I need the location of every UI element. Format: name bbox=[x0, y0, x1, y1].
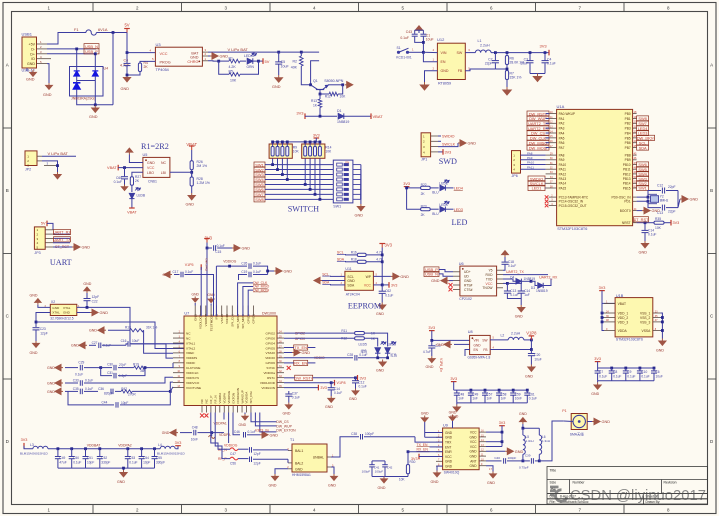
cap C12 0.1uF bbox=[355, 378, 357, 381]
svg-text:USB1: USB1 bbox=[22, 32, 33, 37]
svg-text:DW_MOSI: DW_MOSI bbox=[529, 145, 548, 150]
svg-text:PROG: PROG bbox=[160, 61, 171, 65]
svg-text:VCC: VCC bbox=[486, 282, 494, 286]
wire cap tops to gnd bbox=[415, 29, 424, 31]
svg-text:VDDinON: VDDinON bbox=[261, 386, 275, 390]
svg-text:U6: U6 bbox=[459, 262, 464, 266]
svg-text:PB1: PB1 bbox=[625, 117, 631, 121]
svg-text:GND: GND bbox=[378, 486, 386, 490]
svg-text:GPIO4: GPIO4 bbox=[266, 341, 276, 345]
mcu swd port labels bbox=[528, 176, 545, 181]
svg-text:SW1: SW1 bbox=[333, 204, 341, 208]
svg-text:LED: LED bbox=[452, 218, 468, 227]
connector JP1 SWD bbox=[421, 133, 431, 157]
gnd below C23 bbox=[33, 341, 40, 347]
svg-text:PA11: PA11 bbox=[559, 168, 567, 172]
svg-text:EN: EN bbox=[474, 348, 479, 352]
svg-text:PB14: PB14 bbox=[623, 182, 631, 186]
svg-text:0.1uF: 0.1uF bbox=[334, 391, 342, 395]
svg-text:V1P8: V1P8 bbox=[337, 381, 346, 385]
svg-text:RX_EN: RX_EN bbox=[294, 361, 307, 366]
svg-text:0.1uF: 0.1uF bbox=[627, 375, 635, 379]
svg-text:GPIO2: GPIO2 bbox=[266, 331, 276, 335]
svg-text:PB2: PB2 bbox=[625, 122, 631, 126]
svg-text:C15: C15 bbox=[215, 250, 221, 254]
svg-text:31K 1%: 31K 1% bbox=[146, 326, 157, 330]
svg-text:1N5819: 1N5819 bbox=[337, 120, 349, 124]
power 3V3 LED block bbox=[404, 186, 410, 188]
svg-text:R11: R11 bbox=[341, 329, 347, 333]
svg-text:40K: 40K bbox=[291, 66, 298, 70]
svg-text:GND: GND bbox=[30, 294, 38, 298]
gnd of USB shell bbox=[26, 68, 28, 71]
gnd plane up symbol bbox=[415, 26, 423, 33]
svg-text:C44: C44 bbox=[102, 400, 108, 404]
svg-text:GPIO5: GPIO5 bbox=[266, 346, 276, 350]
svg-text:VSS_1: VSS_1 bbox=[640, 311, 650, 315]
crystal Y2 bbox=[651, 196, 659, 203]
gnd arrow SMA bbox=[587, 421, 592, 423]
svg-text:PB4: PB4 bbox=[625, 131, 631, 135]
svg-text:R1: R1 bbox=[229, 56, 234, 60]
svg-text:10uF: 10uF bbox=[132, 339, 139, 343]
svg-text:NC: NC bbox=[186, 331, 191, 335]
svg-text:GND: GND bbox=[652, 209, 661, 213]
ports DW_CS DW_WUP DW_EXTON bbox=[251, 413, 276, 422]
svg-text:PA1: PA1 bbox=[559, 117, 565, 121]
svg-text:C48: C48 bbox=[192, 425, 198, 429]
svg-text:C16: C16 bbox=[121, 339, 127, 343]
svg-text:VDDIOG: VDDIOG bbox=[224, 443, 238, 447]
svg-text:SDA: SDA bbox=[322, 281, 330, 285]
resistor network RP1 10K bbox=[269, 144, 292, 158]
cap C20 10uF bbox=[530, 350, 532, 354]
svg-text:VBAT: VBAT bbox=[618, 302, 626, 306]
svg-text:GND: GND bbox=[519, 412, 527, 416]
svg-text:C55: C55 bbox=[156, 456, 162, 460]
svg-text:PB15: PB15 bbox=[623, 186, 631, 190]
gnd below C21 bbox=[428, 356, 435, 362]
label V1P8_En bbox=[465, 350, 470, 357]
svg-text:100pF: 100pF bbox=[365, 432, 374, 436]
svg-text:0.1uF: 0.1uF bbox=[85, 378, 93, 382]
mcu left port labels bbox=[527, 111, 549, 116]
svg-text:C31: C31 bbox=[107, 371, 113, 375]
svg-text:XTAL: XTAL bbox=[63, 306, 71, 310]
svg-text:2K: 2K bbox=[144, 65, 149, 69]
svg-text:GND: GND bbox=[89, 329, 97, 333]
svg-text:JP2: JP2 bbox=[25, 167, 31, 171]
svg-text:AT24C04: AT24C04 bbox=[346, 292, 360, 296]
gnd below leds bbox=[379, 360, 386, 367]
svg-text:3V3: 3V3 bbox=[428, 326, 435, 330]
svg-text:GND: GND bbox=[147, 161, 155, 165]
gnd below C62 bbox=[379, 303, 386, 310]
svg-text:47uF: 47uF bbox=[59, 460, 66, 464]
svg-text:C49: C49 bbox=[59, 456, 65, 460]
x mark SYNC bbox=[287, 366, 291, 370]
svg-text:2M 1%: 2M 1% bbox=[197, 164, 208, 168]
svg-text:3V3: 3V3 bbox=[296, 111, 304, 116]
gnd below dip switch bbox=[360, 199, 362, 204]
svg-text:VCC: VCC bbox=[160, 52, 168, 56]
svg-text:15K 1%: 15K 1% bbox=[510, 76, 522, 80]
wire U1B vdd bus bbox=[602, 313, 604, 331]
svg-text:XTAL1: XTAL1 bbox=[186, 341, 196, 345]
svg-text:TESTMODE: TESTMODE bbox=[209, 314, 213, 331]
gnd below C14 bbox=[518, 305, 525, 312]
svg-text:12pF: 12pF bbox=[253, 452, 260, 456]
svg-text:GND: GND bbox=[470, 435, 478, 439]
svg-text:Size: Size bbox=[550, 481, 557, 485]
svg-text:0.1uF: 0.1uF bbox=[359, 384, 367, 388]
svg-text:C29: C29 bbox=[78, 360, 84, 364]
svg-text:BAL1: BAL1 bbox=[295, 449, 303, 453]
svg-text:VDDLDOD: VDDLDOD bbox=[260, 381, 276, 385]
wire CHRG to R1 bbox=[208, 60, 219, 62]
diode D3 bbox=[531, 281, 537, 285]
svg-text:SWITCH: SWITCH bbox=[288, 205, 319, 214]
svg-text:UART: UART bbox=[50, 258, 72, 267]
gnd below C4 bbox=[123, 75, 130, 82]
svg-text:VDDIF: VDDIF bbox=[186, 361, 195, 365]
svg-text:UART_TX: UART_TX bbox=[53, 237, 71, 242]
svg-text:TP4054: TP4054 bbox=[156, 68, 169, 72]
svg-text:100pF: 100pF bbox=[375, 470, 384, 474]
svg-text:C43: C43 bbox=[406, 30, 412, 34]
svg-text:0.1uF: 0.1uF bbox=[510, 293, 518, 297]
svg-text:VCC: VCC bbox=[147, 166, 155, 170]
svg-text:GND: GND bbox=[47, 366, 55, 370]
svg-text:VCC: VCC bbox=[470, 445, 477, 449]
svg-text:GND: GND bbox=[242, 247, 251, 251]
power 3V3 decouple row1 bbox=[451, 381, 457, 383]
svg-text:GND: GND bbox=[100, 311, 109, 315]
x marks RTS CTS bbox=[449, 283, 453, 287]
svg-text:GND: GND bbox=[426, 365, 434, 369]
svg-text:A: A bbox=[6, 63, 9, 68]
gnd below C3 C4 bbox=[530, 73, 545, 75]
svg-text:JP3: JP3 bbox=[34, 251, 40, 255]
svg-text:LED3: LED3 bbox=[454, 208, 463, 212]
svg-text:ANT: ANT bbox=[470, 459, 476, 463]
svg-text:C35: C35 bbox=[73, 387, 79, 391]
svg-text:GND: GND bbox=[295, 467, 303, 471]
svg-text:GND: GND bbox=[52, 306, 60, 310]
gnd arrow BOOT0 bbox=[637, 210, 642, 212]
svg-text:PB11: PB11 bbox=[623, 168, 631, 172]
svg-text:5V: 5V bbox=[265, 59, 270, 64]
svg-text:U11: U11 bbox=[345, 267, 351, 271]
svg-text:D+: D+ bbox=[30, 52, 35, 56]
cap C37 bbox=[288, 391, 290, 394]
svg-text:VSSIO: VSSIO bbox=[266, 351, 276, 355]
svg-text:PA8: PA8 bbox=[527, 151, 533, 155]
svg-text:GND: GND bbox=[431, 480, 439, 484]
svg-text:GND: GND bbox=[63, 311, 71, 315]
cap C33 22pF bbox=[662, 205, 664, 211]
svg-text:C56: C56 bbox=[230, 461, 236, 465]
svg-text:22pF: 22pF bbox=[668, 210, 676, 214]
svg-text:VBAT: VBAT bbox=[186, 142, 197, 147]
svg-text:FB: FB bbox=[458, 69, 463, 73]
power 3V3 SWD bbox=[438, 151, 443, 153]
svg-text:R2: R2 bbox=[293, 60, 298, 64]
svg-text:PA9: PA9 bbox=[559, 158, 565, 162]
svg-text:GPIO0: GPIO0 bbox=[266, 336, 276, 340]
svg-text:SW8: SW8 bbox=[255, 197, 263, 202]
power V1P8 VDDLDOD bbox=[284, 382, 331, 384]
wire +5V to fuse bbox=[47, 33, 76, 45]
svg-text:10pF: 10pF bbox=[87, 460, 94, 464]
svg-text:LEDB: LEDB bbox=[137, 194, 146, 198]
svg-text:GND: GND bbox=[445, 465, 453, 469]
decouple caps row1 bbox=[454, 389, 528, 391]
svg-text:C40: C40 bbox=[494, 456, 500, 460]
svg-text:0.1uF: 0.1uF bbox=[217, 244, 225, 248]
wire D+ to USB_P bbox=[47, 53, 96, 55]
svg-text:VDDIOA: VDDIOA bbox=[245, 391, 249, 404]
svg-text:SPI_MOSI: SPI_MOSI bbox=[241, 314, 245, 329]
power 3V3 U1B bbox=[599, 290, 605, 292]
svg-text:C26: C26 bbox=[241, 262, 247, 266]
power 3V3 left bbox=[304, 113, 306, 119]
resnet column joins bbox=[272, 158, 274, 164]
svg-text:100pF: 100pF bbox=[508, 456, 517, 460]
svg-text:1.2M 1%: 1.2M 1% bbox=[197, 181, 210, 185]
net label USB_N bbox=[84, 44, 99, 49]
power 3V3 at RSTn bbox=[356, 377, 358, 379]
svg-text:GND: GND bbox=[639, 251, 648, 255]
gnd below row1 bbox=[456, 403, 458, 405]
svg-text:PA4: PA4 bbox=[559, 131, 565, 135]
svg-text:RX_EN: RX_EN bbox=[417, 448, 429, 452]
svg-text:JP1: JP1 bbox=[421, 158, 427, 162]
svg-text:UART2_RX: UART2_RX bbox=[539, 275, 558, 279]
svg-text:VBAT: VBAT bbox=[127, 211, 137, 215]
svg-text:GND: GND bbox=[464, 279, 472, 283]
svg-text:VDDPA: VDDPA bbox=[222, 392, 226, 403]
svg-text:3V3: 3V3 bbox=[320, 386, 327, 390]
svg-text:GND: GND bbox=[468, 142, 477, 146]
svg-text:C17: C17 bbox=[173, 270, 179, 274]
ESD diode array box bbox=[70, 67, 104, 97]
svg-text:27pF: 27pF bbox=[119, 363, 126, 367]
crystal Y2 8MHz circuit bbox=[637, 191, 661, 198]
svg-text:C28: C28 bbox=[347, 353, 353, 357]
wire BAT to U10 bbox=[279, 51, 319, 53]
wire 5V to U3 VCC bbox=[127, 33, 155, 53]
svg-text:VCC: VCC bbox=[470, 431, 477, 435]
svg-text:R30: R30 bbox=[410, 460, 416, 464]
svg-text:Title: Title bbox=[550, 469, 557, 473]
svg-text:VDDCLK: VDDCLK bbox=[186, 371, 199, 375]
wire crystal gnd bbox=[678, 191, 680, 208]
svg-text:Number: Number bbox=[573, 481, 586, 485]
svg-text:3V3: 3V3 bbox=[391, 283, 397, 287]
svg-text:SW4010Q: SW4010Q bbox=[444, 471, 460, 475]
svg-text:DW_WUP: DW_WUP bbox=[276, 424, 292, 428]
svg-text:C54: C54 bbox=[143, 456, 149, 460]
svg-text:0.1uF: 0.1uF bbox=[359, 353, 367, 357]
gnd below C36b bbox=[328, 396, 335, 402]
wire T1 gnd bbox=[275, 469, 288, 474]
svg-text:HHM1598A1: HHM1598A1 bbox=[292, 473, 311, 477]
svg-text:V3P3_0n: V3P3_0n bbox=[255, 429, 269, 433]
svg-text:PA11: PA11 bbox=[527, 165, 534, 169]
svg-text:3V3: 3V3 bbox=[385, 243, 393, 248]
wire X2 xtal out right bbox=[77, 307, 184, 343]
svg-text:VCC: VCC bbox=[470, 440, 477, 444]
svg-text:PB9: PB9 bbox=[625, 158, 631, 162]
svg-text:PA7: PA7 bbox=[559, 146, 565, 150]
svg-text:VDD_3: VDD_3 bbox=[618, 320, 629, 324]
svg-text:GND: GND bbox=[656, 348, 664, 352]
svg-text:2.2uH: 2.2uH bbox=[480, 43, 490, 47]
svg-text:1N5819: 1N5819 bbox=[524, 277, 536, 281]
svg-text:36K: 36K bbox=[140, 369, 147, 373]
svg-text:C47: C47 bbox=[230, 452, 236, 456]
svg-text:C36: C36 bbox=[98, 387, 104, 391]
svg-text:L2: L2 bbox=[501, 333, 505, 337]
svg-text:红色: 红色 bbox=[391, 353, 398, 358]
svg-text:B: B bbox=[6, 188, 9, 193]
svg-text:PA14: PA14 bbox=[559, 182, 567, 186]
wire VIN bbox=[423, 51, 437, 53]
net label UART_RX bbox=[53, 233, 70, 235]
port DW_RSTn bbox=[295, 375, 313, 380]
wire BAT rail bbox=[208, 51, 279, 53]
svg-text:BOOT0: BOOT0 bbox=[620, 209, 631, 213]
wire 5V rail bbox=[113, 32, 127, 34]
svg-text:0.1uF: 0.1uF bbox=[253, 270, 261, 274]
svg-text:LED4: LED4 bbox=[454, 187, 463, 191]
svg-text:LED1: LED1 bbox=[532, 186, 542, 191]
power 3V3 above U2 bbox=[204, 239, 210, 243]
power 3V3 left rail bbox=[23, 443, 25, 449]
svg-text:GND: GND bbox=[269, 484, 277, 488]
wire TRX from balun bbox=[415, 437, 443, 442]
wire EN down bbox=[311, 61, 320, 85]
power VBAT above R26 bbox=[189, 146, 195, 150]
svg-text:GND: GND bbox=[436, 343, 444, 347]
svg-text:T1: T1 bbox=[290, 438, 294, 442]
net label SWDIO bbox=[438, 135, 441, 137]
wire T1 unbal to C38 bbox=[331, 437, 359, 457]
cap row C31 bbox=[101, 368, 112, 376]
svg-text:0.1uF: 0.1uF bbox=[547, 62, 556, 66]
svg-text:V LiPo BAT: V LiPo BAT bbox=[228, 47, 249, 52]
gnd arrow VSSIO bbox=[284, 352, 292, 354]
svg-text:VSS_3: VSS_3 bbox=[640, 320, 650, 324]
svg-text:CN61: CN61 bbox=[148, 180, 157, 184]
svg-text:U12: U12 bbox=[437, 37, 445, 42]
svg-text:GND: GND bbox=[441, 69, 449, 73]
svg-text:GND: GND bbox=[82, 246, 91, 250]
svg-text:R12: R12 bbox=[341, 337, 347, 341]
svg-text:GND: GND bbox=[30, 351, 38, 355]
wire vcotune bbox=[170, 387, 173, 392]
svg-text:WAKEUP: WAKEUP bbox=[240, 390, 244, 403]
svg-text:R13: R13 bbox=[311, 99, 317, 103]
power 3V3 above resnets bbox=[314, 137, 320, 139]
svg-text:3V3: 3V3 bbox=[313, 134, 320, 138]
svg-text:VDDBAT: VDDBAT bbox=[87, 444, 101, 448]
svg-text:WP: WP bbox=[366, 275, 372, 279]
svg-text:0.1uF: 0.1uF bbox=[292, 395, 300, 399]
wire EN tie to VIN bbox=[423, 52, 437, 61]
svg-text:EN: EN bbox=[441, 60, 446, 64]
svg-text:RF_P: RF_P bbox=[218, 457, 227, 461]
svg-text:PA5: PA5 bbox=[559, 136, 565, 140]
svg-text:G6959-MPA-1.8: G6959-MPA-1.8 bbox=[468, 356, 491, 360]
svg-text:PB7: PB7 bbox=[625, 146, 631, 150]
svg-text:PB6: PB6 bbox=[625, 141, 631, 145]
svg-text:0.1uF: 0.1uF bbox=[73, 460, 81, 464]
wire JP3 gnd bbox=[53, 246, 72, 248]
wire USB GND down bbox=[47, 64, 49, 83]
svg-text:GND: GND bbox=[515, 450, 524, 454]
gnd arrow eeprom bbox=[322, 280, 345, 282]
svg-text:BLU: BLU bbox=[432, 212, 439, 216]
svg-text:NRST: NRST bbox=[622, 221, 631, 225]
caps C41 C42 below bbox=[371, 461, 373, 465]
svg-text:PA10: PA10 bbox=[527, 161, 534, 165]
svg-text:VDDMS: VDDMS bbox=[186, 356, 197, 360]
svg-text:JN803RA(2SG): JN803RA(2SG) bbox=[71, 97, 95, 101]
svg-text:C38: C38 bbox=[351, 432, 357, 436]
wire D- to USB_N bbox=[47, 48, 96, 50]
power VBAT into U5 bbox=[117, 165, 119, 171]
svg-text:GND: GND bbox=[470, 464, 478, 468]
svg-text:10K: 10K bbox=[230, 79, 237, 83]
svg-text:GND: GND bbox=[602, 420, 611, 424]
svg-text:VCOTUNE: VCOTUNE bbox=[186, 386, 201, 390]
svg-text:C50: C50 bbox=[73, 456, 79, 460]
svg-text:10K: 10K bbox=[340, 94, 347, 98]
svg-text:2.2uH: 2.2uH bbox=[511, 331, 521, 335]
ESD diode TVS bbox=[73, 83, 80, 89]
svg-text:GND: GND bbox=[117, 480, 125, 484]
gnd below C5 bbox=[275, 75, 283, 82]
svg-text:U5: U5 bbox=[143, 153, 148, 157]
svg-text:VDDSYN: VDDSYN bbox=[186, 376, 199, 380]
svg-text:UD: UD bbox=[464, 275, 469, 279]
svg-text:BLU: BLU bbox=[432, 191, 439, 195]
gnd below R28 bbox=[188, 193, 195, 200]
wire T1 pin5 gnd bbox=[331, 467, 334, 474]
eeprom VCC wire bbox=[373, 284, 389, 286]
svg-text:R16: R16 bbox=[351, 251, 357, 255]
gnd below row2 bbox=[597, 381, 599, 383]
svg-text:VCC: VCC bbox=[445, 455, 452, 459]
svg-text:10pF: 10pF bbox=[121, 401, 128, 405]
svg-text:VDD_2: VDD_2 bbox=[618, 316, 629, 320]
svg-text:RSTn: RSTn bbox=[267, 376, 275, 380]
svg-text:EEPROM: EEPROM bbox=[348, 302, 382, 311]
junction BAT bbox=[277, 51, 280, 54]
svg-text:GND: GND bbox=[89, 115, 98, 119]
svg-text:PB0: PB0 bbox=[625, 112, 631, 116]
svg-text:R1=2R2: R1=2R2 bbox=[141, 142, 169, 151]
svg-text:C39: C39 bbox=[525, 453, 531, 457]
svg-text:U4: U4 bbox=[104, 67, 109, 71]
svg-text:STM32F103C8T6: STM32F103C8T6 bbox=[616, 338, 643, 342]
svg-text:U3: U3 bbox=[156, 42, 162, 47]
power 3V3 eeprom bbox=[379, 244, 385, 248]
svg-text:STM32F103C8T6: STM32F103C8T6 bbox=[557, 227, 587, 231]
svg-text:LBI: LBI bbox=[161, 171, 166, 175]
